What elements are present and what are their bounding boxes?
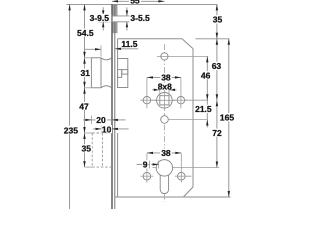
left dimension column 54.5 / 31 / 47 / 35 [76, 4, 94, 167]
follower hub circle [157, 93, 173, 109]
dimension 46 / 21.5 column [195, 56, 212, 127]
dimension 3-5.5 [126, 7, 150, 30]
deadbolt hidden (dashed) [92, 133, 112, 167]
dimension 3-9.5 [89, 7, 112, 30]
cylinder left screw crosshair [146, 153, 148, 182]
svg-text:3-9.5: 3-9.5 [90, 13, 110, 23]
svg-text:63: 63 [212, 61, 222, 71]
dimension 8x8 [152, 82, 176, 96]
lock case right edge [192, 49, 194, 187]
svg-text:47: 47 [79, 101, 89, 111]
hub right screw crosshair [180, 77, 182, 108]
cylinder right screw crosshair [180, 153, 182, 182]
dimension 235 [63, 4, 79, 209]
dimension 11.5 [85, 39, 139, 56]
strike protrusion white notch [113, 16, 118, 21]
hub right screw hole [177, 97, 184, 104]
label 35 [81, 144, 92, 152]
faceplate front edge [111, 4, 113, 209]
svg-text:35: 35 [213, 15, 223, 25]
strike protrusion top line [98, 15, 129, 17]
svg-text:235: 235 [64, 125, 78, 135]
dimension 38 (hub) [147, 73, 181, 83]
right dimension column 35 / 63 / 72 [211, 4, 224, 167]
svg-text:35: 35 [82, 144, 92, 154]
svg-text:21.5: 21.5 [195, 104, 212, 114]
top hole extension line [157, 55, 208, 57]
dimension 38 (cylinder) [147, 148, 181, 158]
lock case bottom-right chamfer [183, 187, 193, 197]
svg-text:54.5: 54.5 [77, 28, 94, 38]
case-top right extension line [196, 38, 230, 40]
dimension 9 [137, 160, 159, 170]
label 31 [80, 69, 91, 77]
faceplate top extension line [67, 3, 218, 5]
svg-text:165: 165 [220, 112, 234, 122]
hub left screw crosshair [146, 77, 148, 108]
hub crosshair [154, 99, 175, 101]
svg-text:10: 10 [102, 124, 112, 134]
svg-text:11.5: 11.5 [121, 39, 137, 49]
lock case top-right chamfer [182, 39, 193, 49]
top hole [161, 53, 168, 60]
extension ticks latch/deadbolt [85, 57, 92, 59]
euro profile cylinder hole [160, 175, 168, 194]
cylinder center extension line [152, 167, 219, 169]
latch tail divider box [122, 70, 128, 75]
cylinder right screw hole [178, 172, 186, 180]
hub level extension line [140, 99, 208, 101]
latch housing side view [118, 59, 128, 88]
svg-text:46: 46 [201, 70, 211, 80]
svg-text:38: 38 [161, 148, 171, 158]
cylinder left screw hole [143, 172, 151, 180]
latch bolt front view [91, 58, 111, 88]
svg-text:31: 31 [81, 68, 91, 78]
centerline (dash-dot vertical axis) [163, 44, 165, 202]
svg-text:72: 72 [212, 128, 222, 138]
svg-text:9: 9 [143, 160, 148, 170]
dimension 20 [83, 115, 126, 125]
dimension 165 [219, 39, 235, 197]
latch tail small box [118, 70, 122, 78]
label 54.5 [76, 29, 94, 37]
svg-text:8x8: 8x8 [158, 82, 172, 92]
lower hole extension line [169, 119, 208, 121]
dimension 10 [93, 124, 129, 134]
lock case front wall [117, 39, 119, 59]
lower hole [161, 116, 169, 124]
strike protrusion bottom line [98, 21, 129, 23]
faceplate hatched cross-section (gray strip at top) [112, 5, 117, 34]
lock case top edge [118, 38, 182, 40]
lock case bottom edge + extension [115, 196, 231, 198]
dimension 55 (backset, clipped at top) [112, 0, 164, 5]
svg-text:55: 55 [130, 0, 140, 5]
faceplate back edge [114, 4, 116, 209]
label 47 [78, 102, 90, 110]
follower hub 8x8 square [160, 96, 169, 105]
hub left screw hole [143, 97, 150, 104]
svg-text:3-5.5: 3-5.5 [130, 13, 150, 23]
